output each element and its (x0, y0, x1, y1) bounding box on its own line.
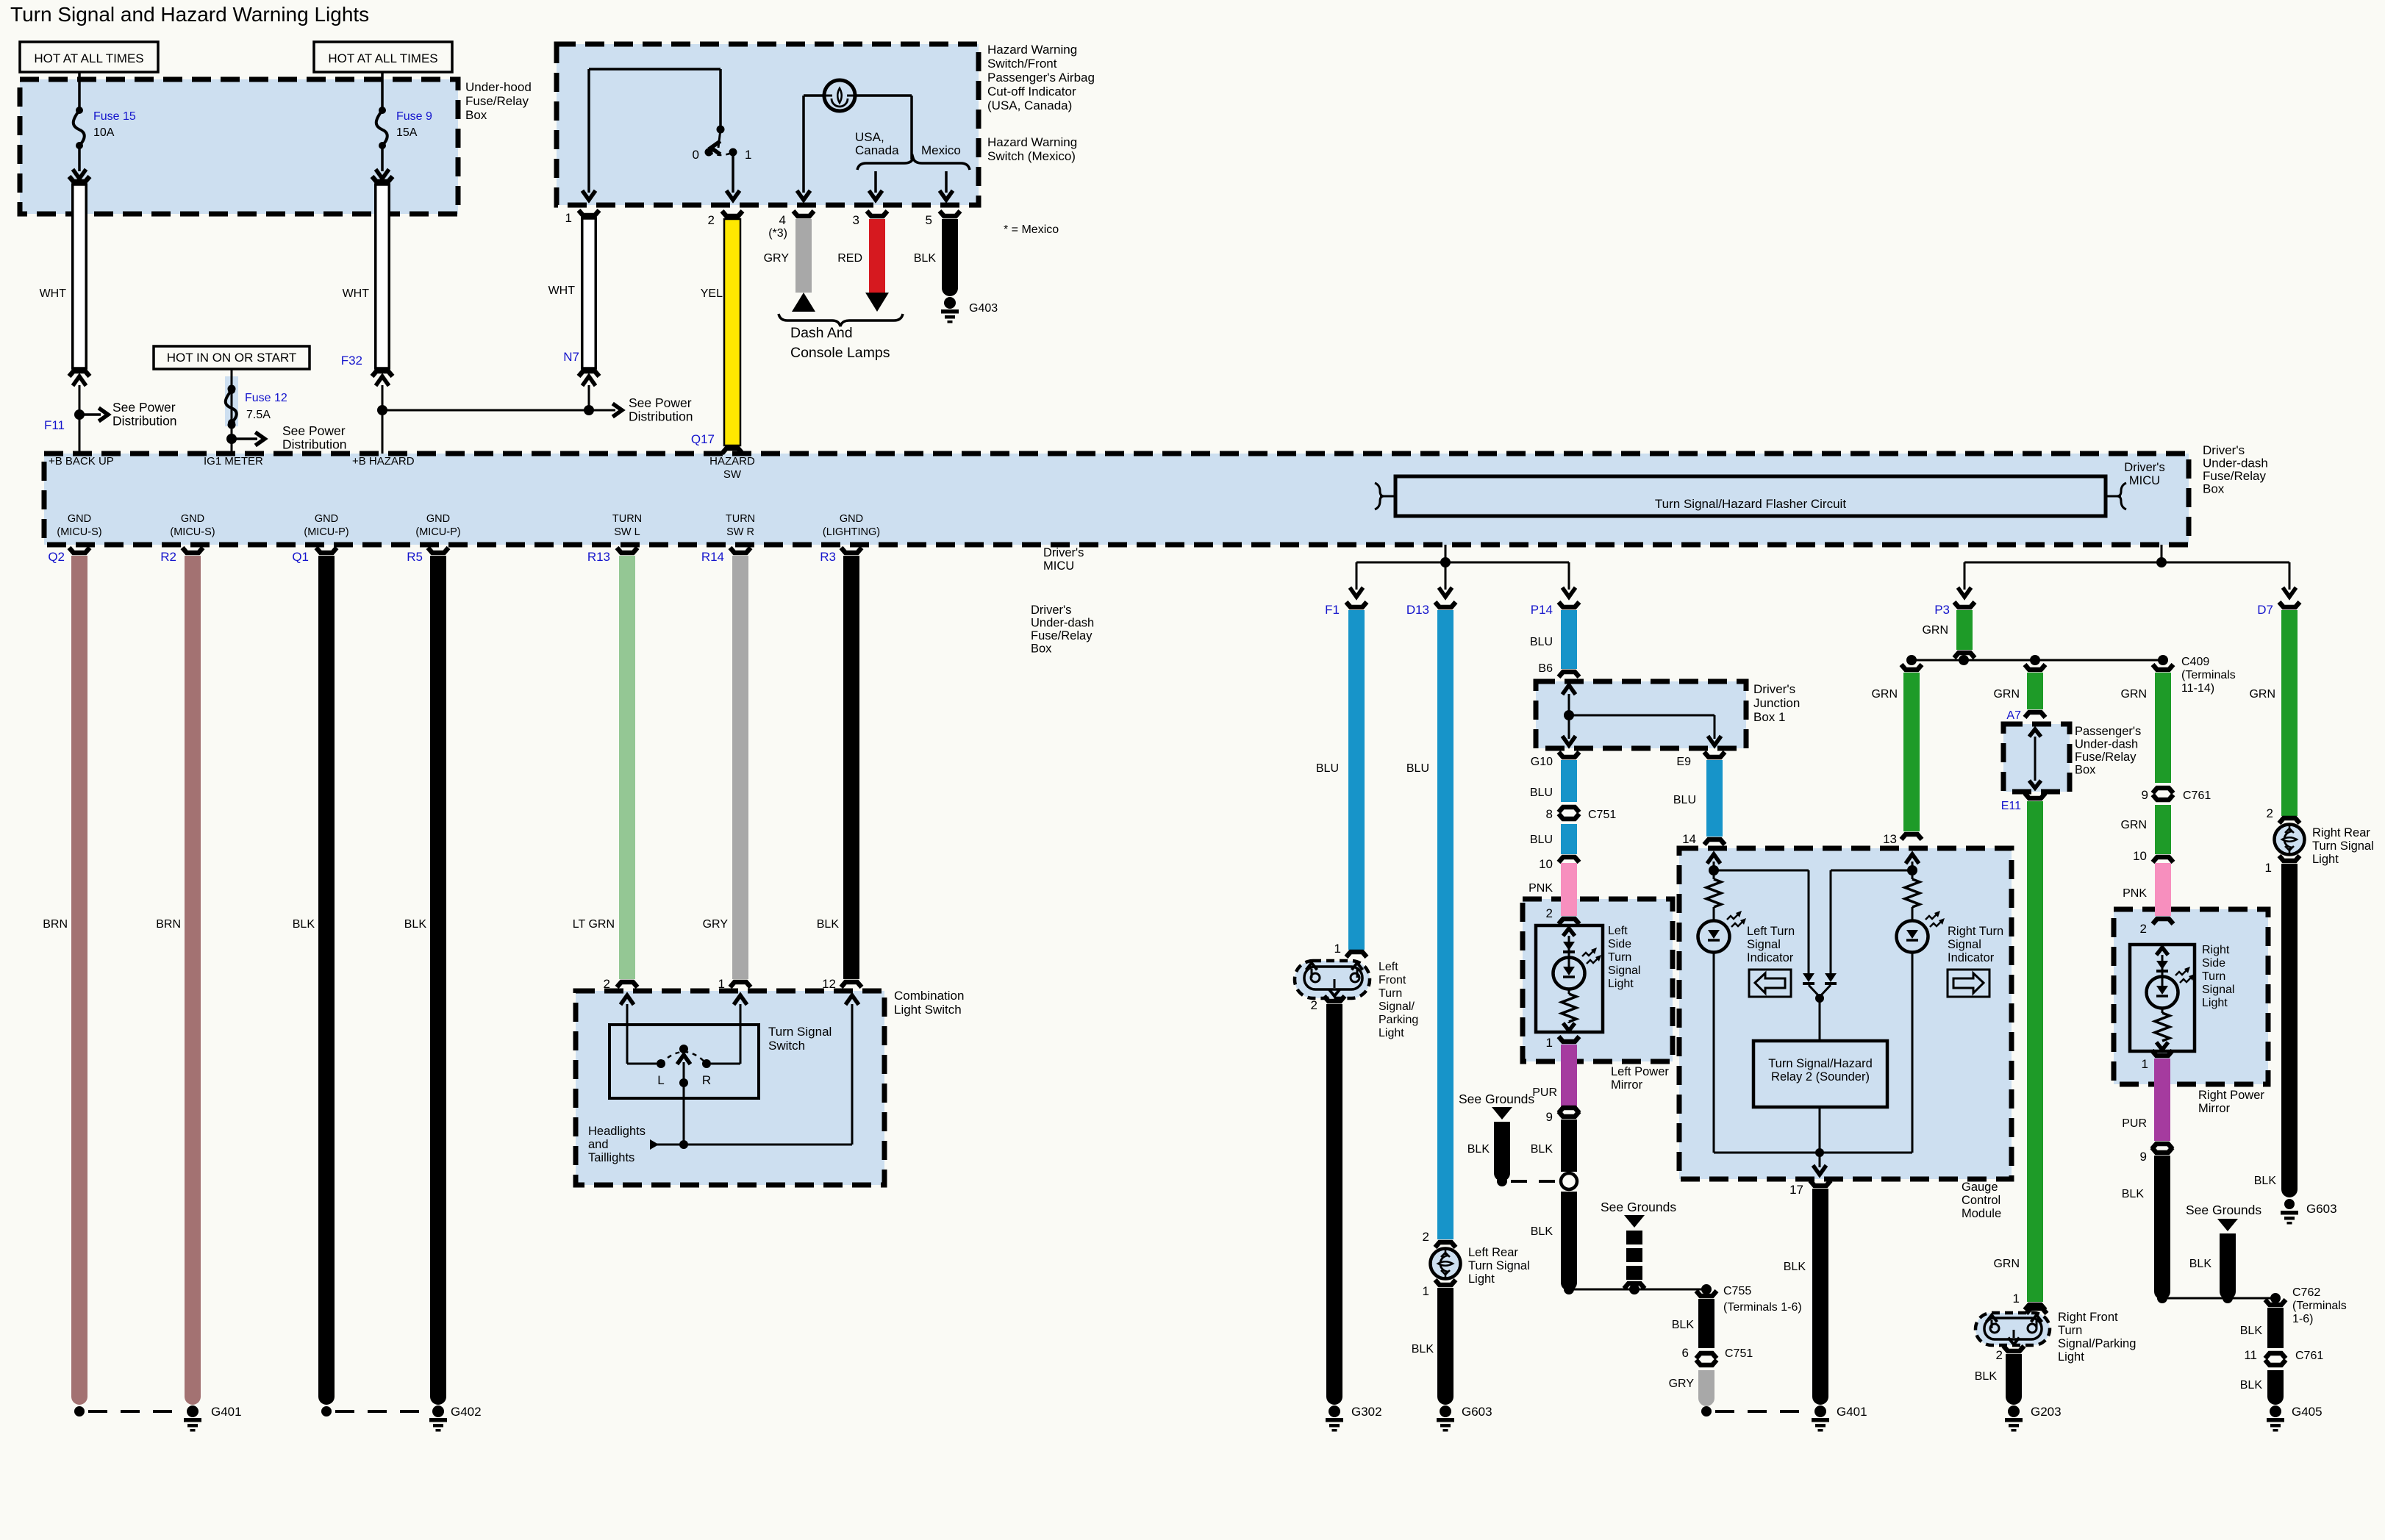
svg-text:0: 0 (693, 148, 699, 162)
svg-text:BLK: BLK (1784, 1261, 1806, 1273)
svg-text:Q1: Q1 (292, 550, 309, 564)
svg-text:BLK: BLK (293, 918, 315, 931)
svg-text:BLU: BLU (1530, 834, 1553, 846)
svg-text:BLK: BLK (914, 252, 937, 265)
svg-text:YEL: YEL (701, 287, 723, 300)
svg-text:R13: R13 (587, 550, 610, 564)
svg-text:BLU: BLU (1530, 636, 1553, 648)
svg-text:Relay 2 (Sounder): Relay 2 (Sounder) (1771, 1070, 1870, 1084)
svg-text:PUR: PUR (2122, 1117, 2147, 1130)
svg-text:P14: P14 (1531, 603, 1553, 617)
svg-text:MICU: MICU (1043, 559, 1074, 573)
svg-text:Box: Box (2203, 482, 2225, 496)
svg-text:14: 14 (1682, 832, 1696, 846)
svg-text:Hazard Warning: Hazard Warning (987, 135, 1077, 149)
svg-text:Driver's: Driver's (1753, 682, 1795, 696)
svg-text:TURN: TURN (726, 513, 755, 525)
svg-text:Taillights: Taillights (588, 1151, 634, 1164)
svg-text:11: 11 (2244, 1348, 2257, 1362)
svg-text:See Power: See Power (282, 423, 346, 438)
svg-text:9: 9 (2140, 1150, 2147, 1164)
svg-text:D7: D7 (2257, 603, 2273, 617)
svg-text:BLK: BLK (2240, 1325, 2263, 1337)
svg-text:(*3): (*3) (768, 227, 787, 240)
svg-text:SW R: SW R (726, 526, 754, 538)
svg-text:4: 4 (779, 213, 786, 227)
svg-text:(Terminals: (Terminals (2181, 669, 2236, 681)
svg-text:Side: Side (2202, 957, 2225, 970)
svg-text:G401: G401 (1837, 1405, 1867, 1419)
svg-text:USA,: USA, (855, 130, 884, 144)
svg-text:(LIGHTING): (LIGHTING) (823, 526, 880, 538)
svg-text:Right Front: Right Front (2058, 1311, 2118, 1324)
svg-text:Right Power: Right Power (2198, 1089, 2264, 1102)
svg-text:C761: C761 (2183, 789, 2211, 802)
svg-text:G302: G302 (1351, 1405, 1382, 1419)
svg-text:G405: G405 (2292, 1405, 2323, 1419)
svg-text:PNK: PNK (2123, 887, 2147, 900)
svg-text:GRY: GRY (1669, 1378, 1695, 1390)
svg-text:Turn Signal/Hazard: Turn Signal/Hazard (1768, 1057, 1873, 1070)
svg-text:D13: D13 (1406, 603, 1429, 617)
svg-text:PUR: PUR (1532, 1086, 1557, 1099)
svg-text:Switch: Switch (768, 1039, 805, 1053)
svg-text:Under-hood: Under-hood (465, 80, 532, 94)
svg-text:GRN: GRN (1993, 688, 2020, 701)
svg-text:BLU: BLU (1530, 787, 1553, 799)
svg-text:Fuse/Relay: Fuse/Relay (2075, 751, 2137, 764)
svg-text:(MICU-S): (MICU-S) (170, 526, 215, 538)
svg-text:Turn Signal: Turn Signal (1468, 1259, 1530, 1272)
svg-text:5: 5 (926, 213, 932, 227)
svg-text:BLK: BLK (1672, 1319, 1695, 1331)
svg-text:1: 1 (565, 211, 572, 225)
svg-text:GRN: GRN (1871, 688, 1898, 701)
svg-text:See Power: See Power (629, 395, 692, 410)
svg-text:Headlights: Headlights (588, 1125, 646, 1138)
svg-text:Box: Box (2075, 764, 2096, 777)
svg-text:Right Turn: Right Turn (1948, 925, 2003, 938)
svg-text:7.5A: 7.5A (246, 409, 271, 421)
svg-text:Distribution: Distribution (629, 409, 693, 424)
svg-text:WHT: WHT (343, 287, 370, 300)
svg-text:Hazard Warning: Hazard Warning (987, 43, 1077, 57)
svg-text:1: 1 (745, 148, 751, 162)
svg-text:Indicator: Indicator (1948, 951, 1995, 964)
svg-text:(Terminals 1-6): (Terminals 1-6) (1723, 1301, 1802, 1314)
svg-text:BLK: BLK (2122, 1188, 2145, 1200)
svg-text:Gauge: Gauge (1962, 1181, 1998, 1194)
svg-text:BRN: BRN (156, 918, 181, 931)
svg-text:2: 2 (1996, 1348, 2003, 1362)
svg-text:BLK: BLK (1975, 1370, 1998, 1383)
svg-text:G603: G603 (2306, 1202, 2337, 1216)
svg-text:C751: C751 (1725, 1347, 1753, 1360)
svg-text:HAZARD: HAZARD (709, 455, 755, 468)
svg-text:Box: Box (465, 108, 487, 122)
svg-text:1: 1 (1334, 942, 1341, 956)
svg-text:BLK: BLK (817, 918, 840, 931)
svg-text:Signal: Signal (1747, 938, 1781, 951)
svg-text:BRN: BRN (43, 918, 68, 931)
svg-text:2: 2 (1546, 906, 1553, 920)
svg-text:Light: Light (2058, 1350, 2084, 1364)
svg-text:SW L: SW L (614, 526, 640, 538)
svg-text:MICU: MICU (2129, 474, 2160, 487)
svg-text:Mexico: Mexico (921, 143, 961, 157)
svg-text:Front: Front (1379, 974, 1406, 986)
svg-text:Turn: Turn (1608, 951, 1631, 964)
svg-text:C751: C751 (1588, 809, 1616, 821)
svg-text:Left Rear: Left Rear (1468, 1246, 1518, 1259)
svg-text:G203: G203 (2031, 1405, 2062, 1419)
svg-text:BLK: BLK (2254, 1175, 2277, 1187)
svg-text:G402: G402 (451, 1405, 482, 1419)
svg-text:1: 1 (2013, 1292, 2020, 1306)
svg-text:WHT: WHT (40, 287, 67, 300)
svg-text:PNK: PNK (1528, 882, 1553, 895)
svg-text:GRN: GRN (1922, 624, 1948, 637)
svg-text:F1: F1 (1325, 603, 1340, 617)
svg-text:BLK: BLK (1467, 1143, 1490, 1156)
svg-text:BLU: BLU (1406, 762, 1429, 775)
svg-text:Fuse/Relay: Fuse/Relay (465, 94, 529, 108)
svg-text:Driver's: Driver's (2203, 443, 2245, 457)
svg-text:10: 10 (1539, 857, 1553, 871)
svg-text:Box 1: Box 1 (1753, 710, 1785, 724)
svg-text:10: 10 (2133, 849, 2147, 863)
svg-text:See Grounds: See Grounds (2186, 1203, 2261, 1217)
svg-text:R2: R2 (160, 550, 176, 564)
svg-text:GND: GND (68, 513, 91, 525)
svg-text:Console Lamps: Console Lamps (790, 345, 890, 361)
svg-text:Driver's: Driver's (2124, 461, 2164, 474)
svg-text:BLK: BLK (1531, 1225, 1553, 1238)
svg-text:RED: RED (837, 252, 862, 265)
svg-text:SW: SW (723, 468, 742, 481)
svg-text:Signal/Parking: Signal/Parking (2058, 1337, 2136, 1350)
svg-text:GRN: GRN (2120, 819, 2147, 831)
svg-text:1: 1 (718, 977, 725, 991)
svg-text:G10: G10 (1531, 756, 1553, 768)
svg-text:BLK: BLK (1412, 1343, 1434, 1355)
svg-text:A7: A7 (2006, 709, 2021, 722)
svg-text:N7: N7 (563, 350, 579, 364)
svg-text:Mirror: Mirror (2198, 1102, 2231, 1115)
svg-text:(MICU-S): (MICU-S) (57, 526, 101, 538)
svg-text:Light: Light (2202, 997, 2228, 1009)
svg-text:WHT: WHT (548, 284, 576, 297)
svg-text:Module: Module (1962, 1207, 2001, 1220)
svg-text:13: 13 (1883, 832, 1897, 846)
svg-text:GRN: GRN (2249, 688, 2275, 701)
svg-text:E11: E11 (2001, 800, 2021, 812)
svg-text:Distribution: Distribution (112, 414, 177, 429)
svg-text:BLK: BLK (404, 918, 427, 931)
svg-text:Fuse/Relay: Fuse/Relay (1031, 629, 1093, 642)
svg-text:C755: C755 (1723, 1285, 1751, 1297)
svg-text:Signal/: Signal/ (1379, 1000, 1415, 1013)
svg-text:Light Switch: Light Switch (894, 1003, 962, 1017)
svg-text:Turn Signal and Hazard Warning: Turn Signal and Hazard Warning Lights (10, 3, 369, 26)
svg-text:Signal: Signal (1608, 964, 1640, 977)
svg-text:R14: R14 (701, 550, 724, 564)
svg-text:GND: GND (315, 513, 338, 525)
svg-text:11-14): 11-14) (2181, 682, 2214, 695)
svg-text:Side: Side (1608, 938, 1631, 950)
svg-text:1: 1 (1423, 1284, 1429, 1298)
svg-text:* = Mexico: * = Mexico (1004, 223, 1059, 236)
svg-text:Dash And: Dash And (790, 325, 853, 341)
svg-text:GRY: GRY (764, 252, 790, 265)
svg-text:R: R (702, 1073, 711, 1087)
svg-text:Fuse/Relay: Fuse/Relay (2203, 469, 2266, 483)
svg-text:HOT AT ALL TIMES: HOT AT ALL TIMES (34, 51, 143, 65)
svg-text:Q17: Q17 (691, 432, 715, 446)
svg-text:Driver's: Driver's (1031, 604, 1071, 617)
svg-text:L: L (657, 1073, 664, 1087)
svg-text:Parking: Parking (1379, 1014, 1418, 1026)
svg-text:12: 12 (822, 977, 836, 991)
svg-text:Distribution: Distribution (282, 437, 347, 452)
svg-text:HOT AT ALL TIMES: HOT AT ALL TIMES (328, 51, 437, 65)
svg-text:Light: Light (1468, 1272, 1495, 1286)
svg-text:C761: C761 (2295, 1350, 2323, 1362)
svg-text:Left: Left (1608, 925, 1628, 937)
svg-text:BLK: BLK (2240, 1379, 2263, 1392)
svg-text:Fuse 12: Fuse 12 (245, 392, 287, 404)
svg-text:2: 2 (2140, 922, 2147, 936)
svg-text:Mirror: Mirror (1611, 1078, 1643, 1092)
svg-text:G401: G401 (211, 1405, 242, 1419)
svg-text:1: 1 (2265, 861, 2272, 875)
svg-text:Light: Light (1379, 1027, 1404, 1039)
svg-text:(Terminals: (Terminals (2292, 1300, 2347, 1312)
svg-text:R3: R3 (820, 550, 836, 564)
svg-text:BLK: BLK (2189, 1258, 2212, 1270)
svg-text:Canada: Canada (855, 143, 899, 157)
svg-text:Passenger's Airbag: Passenger's Airbag (987, 71, 1095, 85)
svg-text:2: 2 (1423, 1230, 1429, 1244)
svg-text:Passenger's: Passenger's (2075, 725, 2141, 738)
svg-text:IG1 METER: IG1 METER (204, 455, 263, 468)
svg-text:10A: 10A (93, 126, 115, 139)
svg-text:C409: C409 (2181, 656, 2209, 668)
svg-text:P3: P3 (1934, 603, 1950, 617)
svg-text:Under-dash: Under-dash (2203, 456, 2268, 470)
svg-text:Driver's: Driver's (1043, 546, 1084, 559)
svg-text:GND: GND (181, 513, 204, 525)
svg-text:Turn Signal: Turn Signal (2312, 839, 2374, 853)
svg-text:C762: C762 (2292, 1286, 2320, 1299)
svg-text:2: 2 (1311, 998, 1317, 1012)
svg-text:LT GRN: LT GRN (573, 918, 615, 931)
svg-text:Indicator: Indicator (1747, 951, 1794, 964)
svg-text:2: 2 (604, 977, 610, 991)
svg-text:Signal: Signal (2202, 984, 2234, 996)
svg-text:B6: B6 (1538, 662, 1553, 675)
svg-text:1: 1 (1546, 1036, 1553, 1050)
svg-text:Signal: Signal (1948, 938, 1981, 951)
svg-text:Q2: Q2 (48, 550, 65, 564)
svg-text:15A: 15A (396, 126, 418, 139)
svg-text:Turn Signal/Hazard Flasher Cir: Turn Signal/Hazard Flasher Circuit (1655, 497, 1846, 511)
svg-text:Box: Box (1031, 642, 1052, 656)
svg-text:+B HAZARD: +B HAZARD (352, 455, 415, 468)
svg-text:Under-dash: Under-dash (1031, 617, 1094, 630)
svg-text:+B BACK UP: +B BACK UP (49, 455, 114, 468)
svg-text:1-6): 1-6) (2292, 1313, 2313, 1325)
svg-text:Light: Light (2312, 853, 2339, 866)
svg-text:Fuse 15: Fuse 15 (93, 110, 136, 123)
svg-text:Under-dash: Under-dash (2075, 738, 2138, 751)
svg-text:Left Power: Left Power (1611, 1065, 1669, 1078)
svg-text:8: 8 (1546, 807, 1553, 821)
svg-text:BLU: BLU (1673, 794, 1696, 806)
svg-text:Right Rear: Right Rear (2312, 826, 2370, 839)
svg-text:2: 2 (708, 213, 715, 227)
svg-text:(MICU-P): (MICU-P) (304, 526, 348, 538)
svg-text:HOT IN ON OR START: HOT IN ON OR START (167, 351, 297, 365)
svg-text:Switch (Mexico): Switch (Mexico) (987, 149, 1076, 163)
svg-text:2: 2 (2267, 806, 2273, 820)
svg-text:(MICU-P): (MICU-P) (415, 526, 460, 538)
svg-text:R5: R5 (407, 550, 423, 564)
svg-text:6: 6 (1682, 1346, 1689, 1360)
svg-text:Combination: Combination (894, 989, 964, 1003)
svg-text:Junction: Junction (1753, 696, 1800, 710)
svg-text:GRY: GRY (703, 918, 729, 931)
svg-text:Right: Right (2202, 944, 2230, 956)
svg-text:E9: E9 (1676, 756, 1691, 768)
svg-text:GND: GND (426, 513, 450, 525)
svg-text:(USA, Canada): (USA, Canada) (987, 99, 1072, 112)
svg-text:Control: Control (1962, 1194, 2000, 1207)
svg-text:Turn: Turn (1379, 987, 1402, 1000)
svg-text:See Power: See Power (112, 400, 176, 415)
svg-text:F11: F11 (44, 418, 65, 432)
svg-text:Left: Left (1379, 961, 1398, 973)
svg-text:17: 17 (1789, 1183, 1803, 1197)
svg-text:3: 3 (853, 213, 859, 227)
svg-text:TURN: TURN (612, 513, 642, 525)
svg-text:Turn: Turn (2058, 1324, 2082, 1337)
svg-text:Left Turn: Left Turn (1747, 925, 1795, 938)
svg-text:Fuse 9: Fuse 9 (396, 110, 432, 123)
svg-text:BLK: BLK (1531, 1143, 1553, 1156)
svg-text:9: 9 (2142, 788, 2148, 802)
svg-text:See Grounds: See Grounds (1459, 1092, 1534, 1106)
svg-text:and: and (588, 1138, 609, 1151)
svg-text:GND: GND (840, 513, 863, 525)
svg-text:Light: Light (1608, 978, 1634, 990)
svg-text:Switch/Front: Switch/Front (987, 57, 1057, 71)
svg-text:G603: G603 (1462, 1405, 1492, 1419)
svg-text:GRN: GRN (2120, 688, 2147, 701)
svg-text:See Grounds: See Grounds (1601, 1200, 1676, 1214)
svg-text:Turn Signal: Turn Signal (768, 1025, 832, 1039)
svg-text:G403: G403 (969, 302, 998, 315)
svg-text:Cut-off Indicator: Cut-off Indicator (987, 85, 1076, 99)
svg-text:Turn: Turn (2202, 970, 2225, 983)
svg-text:F32: F32 (341, 354, 362, 368)
svg-text:GRN: GRN (1993, 1258, 2020, 1270)
svg-text:9: 9 (1546, 1110, 1553, 1124)
svg-text:BLU: BLU (1316, 762, 1339, 775)
svg-text:1: 1 (2142, 1057, 2148, 1071)
